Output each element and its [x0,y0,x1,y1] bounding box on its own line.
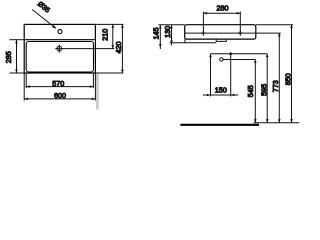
left 150 vertical with up arrow [210,54,212,97]
basin outer rect [24,24,95,73]
top edge extension to 850 [256,24,293,26]
svg-text:600: 600 [54,91,66,100]
junction dot [230,53,232,55]
right 150 vertical [230,52,232,96]
svg-text:595: 595 [260,84,269,96]
svg-text:420: 420 [114,42,123,54]
bowl rounded rect [26,42,93,73]
leader arrowhead [52,25,56,29]
dim 570 line [26,86,93,88]
bottom extension to 420 [95,72,123,74]
dim 545 line [254,60,256,123]
line B 545 reference [223,59,255,61]
dim 280 ext lines [202,12,204,34]
extensions for 600 [23,74,25,101]
dim 600 line [24,98,95,100]
outlet circle [220,58,223,61]
fixing holes line to 773 [185,32,281,34]
faucet hole circle [58,30,62,34]
dim 850 line [291,25,293,123]
dim 280 line [203,12,240,14]
svg-text:150: 150 [215,85,227,94]
fixing hole cross left [201,31,206,36]
line A 595 reference [211,53,268,55]
fixing hole cross right [238,31,243,36]
bottom thin reference line [254,122,300,124]
drain leader to 210 dim [62,48,114,50]
grey artifact band [96,74,99,110]
svg-text:773: 773 [271,80,280,92]
apron bottom line [170,42,217,44]
ledge line [24,39,95,41]
floor line [180,124,259,126]
svg-text:570: 570 [52,79,64,88]
dim 285 extension top [10,39,25,41]
dim 150 line with outside arrows [203,94,211,96]
svg-text:145: 145 [152,28,161,40]
dim 130 line [171,25,173,45]
svg-text:Ø35: Ø35 [36,1,51,15]
top extension to 210/420 [95,23,123,25]
dim 145 line [159,25,161,49]
apron edge left [184,39,186,43]
dim 773 line [278,33,280,123]
svg-text:850: 850 [284,73,293,85]
top edge extension left to 145/130 [159,24,185,26]
svg-text:285: 285 [4,51,13,63]
dim 285 extension bottom [10,72,25,74]
svg-text:545: 545 [246,85,255,97]
dim 285 line [16,40,18,73]
svg-text:210: 210 [101,29,110,41]
svg-text:130: 130 [163,26,172,38]
dim 595 line [266,54,268,123]
leader line O35 [32,10,55,29]
extensions for 570 [25,74,27,89]
drain stub [216,39,226,41]
basin profile rect [185,25,256,39]
drain symbol [55,45,63,53]
dim 420 line [121,24,123,73]
dim 210 line [112,24,114,48]
svg-text:280: 280 [217,3,229,12]
